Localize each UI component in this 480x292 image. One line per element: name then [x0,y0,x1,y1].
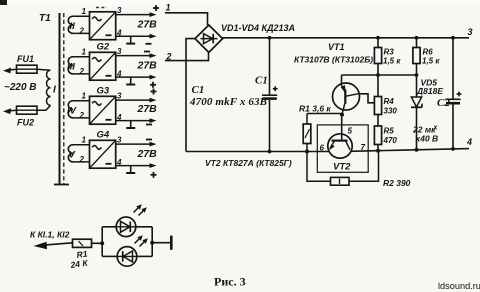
wire: FU2 to primary winding [37,105,51,110]
svg-text:3: 3 [468,27,473,37]
wire: mains top lead with arrow [3,68,17,74]
svg-text:1,5 к: 1,5 к [383,57,401,66]
U1 output pin 3 wire with arrow, plus sign [116,5,159,17]
capacitor C2 [412,36,461,151]
svg-text:КТ3107В (КТ3102Б): КТ3107В (КТ3102Б) [294,55,373,65]
U4 output pin 3 wire with arrow, minus sign [116,136,157,147]
U4 output pin 4 wire with arrow, 27V label, chassis tap, plus sign [116,148,157,178]
wire: bottom rail left section [186,151,330,153]
label winding I [53,85,56,96]
svg-text:G2: G2 [97,42,110,53]
svg-text:6: 6 [320,144,325,153]
U1 output pin 4 wire with arrow, 27V label, chassis tap, minus sign [116,19,157,44]
fuse FU2 [17,106,38,114]
rectifier block U4 (bridge module) [90,140,116,168]
resistor R6 [413,36,440,75]
svg-text:T1: T1 [39,13,51,24]
node 2 [166,52,172,62]
svg-text:1: 1 [82,7,87,16]
winding V pin 1 [73,136,90,145]
svg-text:FU1: FU1 [17,54,34,64]
svg-text:3: 3 [117,6,122,15]
transistor VT2 [328,134,352,173]
rectifier block U2 (bridge module) [90,52,116,80]
wire: LED network right branch [136,227,154,257]
svg-text:1,5 к: 1,5 к [422,57,440,66]
svg-text:R6: R6 [423,48,434,57]
wire: FU1 to primary winding [37,69,51,70]
winding II pin 2 [73,27,90,36]
svg-text:1: 1 [82,92,87,101]
fuse FU2 label [17,118,34,128]
svg-text:~220 В: ~220 В [4,82,37,93]
pin 7 label [361,143,366,152]
svg-text:4: 4 [466,137,472,147]
wire: R1 to LED pair [92,241,105,245]
capacitor C1 [255,36,278,154]
U3 output pin 3 wire with arrow, plus sign [116,89,157,103]
wire: mains bottom lead with arrow [3,108,17,114]
svg-text:II: II [70,21,76,32]
svg-text:К КI.1, КI2: К КI.1, КI2 [30,230,70,240]
svg-text:IV: IV [67,106,77,117]
wire: relay arrow lead [34,242,73,249]
winding III pin 1 [73,48,90,57]
label K K1.1, K1.2 [30,230,70,240]
resistor R5 [374,126,397,153]
wire: R3 bottom to R4 top [377,64,379,97]
label G3 (third block) [97,86,110,97]
svg-text:R2 390: R2 390 [383,178,411,188]
rectifier block U1 (bridge module) [90,12,116,40]
svg-text:4700 mkF x 63В: 4700 mkF x 63В [189,96,267,108]
U3 output pin 4 wire with arrow, 27V label, chassis tap, minus sign [116,103,157,128]
zener diode VD5 [411,75,443,152]
svg-text:27В: 27В [137,19,158,31]
U2 output pin 3 wire with arrow, minus sign [116,47,157,58]
secondary winding II [68,16,75,33]
winding IV pin 1 [73,92,90,101]
terminal stub [152,236,171,250]
fuse FU1 [17,65,38,73]
svg-text:R1 3,6 к: R1 3,6 к [299,104,331,114]
winding V pin 2 [73,155,90,164]
partial cropped label G1 above first block [96,7,107,9]
svg-text:G4: G4 [97,130,110,141]
wire: base junction to VT2 pin 5 [341,115,343,134]
node 3 [468,27,473,37]
svg-text:VT2 КТ827А (КТ825Г): VT2 КТ827А (КТ825Г) [205,158,292,168]
svg-text:27В: 27В [137,103,158,115]
winding IV pin 2 [73,111,90,120]
resistor R2 feedback loop [307,151,411,188]
resistor R1 [303,114,342,154]
label R1 [299,104,331,114]
transformer core [54,13,69,185]
svg-text:1: 1 [166,3,171,13]
watermark ldsound.ru [438,281,480,291]
label ~220V [4,82,37,93]
label VD1-VD4 KD213A [221,23,295,33]
svg-text:R3: R3 [384,48,395,57]
svg-text:Рис. 3: Рис. 3 [214,275,246,289]
svg-text:VT2: VT2 [333,162,351,173]
svg-text:470: 470 [383,136,398,145]
wire: top plus rail [223,37,469,39]
label G4 (fourth block) [97,130,110,141]
resistor R4 [374,97,397,127]
caption Fig. 3 [214,275,246,289]
svg-text:27В: 27В [137,148,158,160]
wire: VT1 collector to R4 [358,94,375,103]
resistor R3 [374,36,401,66]
svg-text:Д818Е: Д818Е [416,86,443,96]
svg-text:III: III [67,62,75,73]
winding III pin 2 [73,67,90,76]
svg-text:ldsound.ru: ldsound.ru [438,281,480,291]
svg-text:G3: G3 [97,86,110,97]
svg-text:R5: R5 [384,127,395,136]
svg-text:FU2: FU2 [17,118,34,128]
svg-text:х40 В: х40 В [415,134,439,144]
resistor R1 (indicator) [69,239,92,270]
svg-text:R4: R4 [384,97,395,106]
bridge rectifier VD1-VD4 [195,25,223,52]
U2 output pin 4 wire with arrow, 27V label, chassis tap, plus sign [116,60,157,88]
LED HL2 [117,235,148,266]
winding II pin 1 [73,7,90,16]
svg-text:5: 5 [348,127,353,136]
node 1 [166,3,171,13]
wire: bridge minus corner down to bottom rail [186,39,195,152]
label C1 value [189,84,267,108]
node 4 [466,137,472,147]
svg-text:3: 3 [117,136,122,145]
svg-text:7: 7 [361,143,366,152]
wire: node 2 to bridge bottom corner [165,53,209,61]
LED HL1 [116,204,147,236]
wire: VT1 emitter reference line [342,73,419,77]
svg-text:VD1-VD4 КД213А: VD1-VD4 КД213А [221,23,295,33]
label VT2 type [205,158,292,168]
svg-text:1: 1 [82,48,87,57]
node: VT1 base junction [340,113,344,117]
VT2 module box [317,125,368,172]
transformer T1 label [39,13,51,24]
svg-text:1: 1 [82,136,87,145]
svg-text:C1: C1 [192,84,205,96]
pin 5 label [348,127,353,136]
svg-text:3: 3 [117,47,122,56]
wire: bottom rail right section [351,149,469,152]
svg-text:330: 330 [384,107,398,116]
wire: LED network left branch [102,227,117,257]
svg-text:I: I [53,85,56,96]
secondary winding V [68,145,75,162]
svg-text:C1: C1 [255,75,268,87]
transistor VT1 [333,75,360,115]
pin 6 label [320,144,325,153]
rectifier block U3 (bridge module) [90,96,116,124]
svg-text:27В: 27В [137,60,158,72]
label G2 (second block) [97,42,110,53]
svg-text:VT1: VT1 [328,42,345,52]
svg-text:3: 3 [117,92,122,101]
scan corner mark [0,0,7,5]
secondary winding III [67,57,75,74]
svg-text:V: V [69,150,76,161]
primary winding I [46,70,50,105]
fuse FU1 label [17,54,34,64]
secondary winding IV [67,101,77,118]
wire: node 1 to bridge top corner [165,13,208,25]
label VT1 [294,42,373,65]
